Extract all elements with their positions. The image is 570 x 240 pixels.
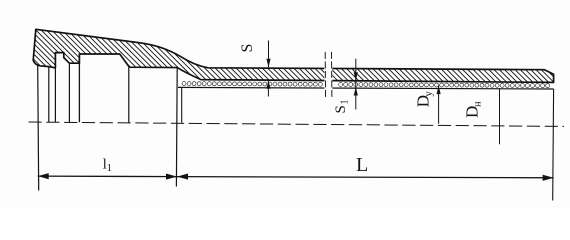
wire: socket bore edge projection line bbox=[78, 54, 80, 122]
svg-text:S: S bbox=[333, 105, 349, 113]
svg-text:н: н bbox=[473, 101, 484, 107]
wire: bore cone step projection line bbox=[128, 67, 130, 123]
wire: spigot end extension line bbox=[552, 89, 555, 201]
dimension S1 (lining thickness), arrows and label bbox=[333, 59, 358, 114]
wire: gasket groove left wall projection line bbox=[54, 53, 56, 123]
wire: socket mouth step projection line bbox=[48, 67, 50, 122]
cement lining granule circles row bbox=[182, 82, 550, 88]
svg-text:1: 1 bbox=[340, 100, 351, 105]
dimension L (pipe length), line, arrows, label bbox=[177, 154, 554, 181]
break line left bbox=[324, 52, 326, 99]
dimension Dn (outside diameter) line and label bbox=[463, 88, 500, 144]
wire: socket end line / shared l1-L extension line bbox=[175, 68, 178, 187]
wire: lining end edge line bbox=[181, 87, 183, 122]
svg-text:S: S bbox=[239, 44, 256, 53]
break gap white-out bbox=[324, 66, 332, 91]
svg-text:L: L bbox=[356, 154, 368, 176]
break line right bbox=[331, 52, 333, 99]
svg-text:у: у bbox=[424, 91, 435, 97]
wire: socket face edge line / l1 extension line bbox=[38, 66, 39, 191]
pipe axis centerline (dash-dot) bbox=[29, 122, 565, 126]
dimension l1 (socket length), line, arrows, label bbox=[38, 156, 177, 179]
cement lining inner surface line bbox=[178, 87, 554, 89]
pipe body section (socket + barrel wall), hatched bbox=[33, 29, 553, 82]
wire: groove rib chamfer projection line bbox=[68, 63, 70, 122]
dimension S (wall thickness), arrows and label bbox=[239, 41, 271, 97]
dimension Dy (nominal bore), arrow and label bbox=[413, 86, 440, 124]
